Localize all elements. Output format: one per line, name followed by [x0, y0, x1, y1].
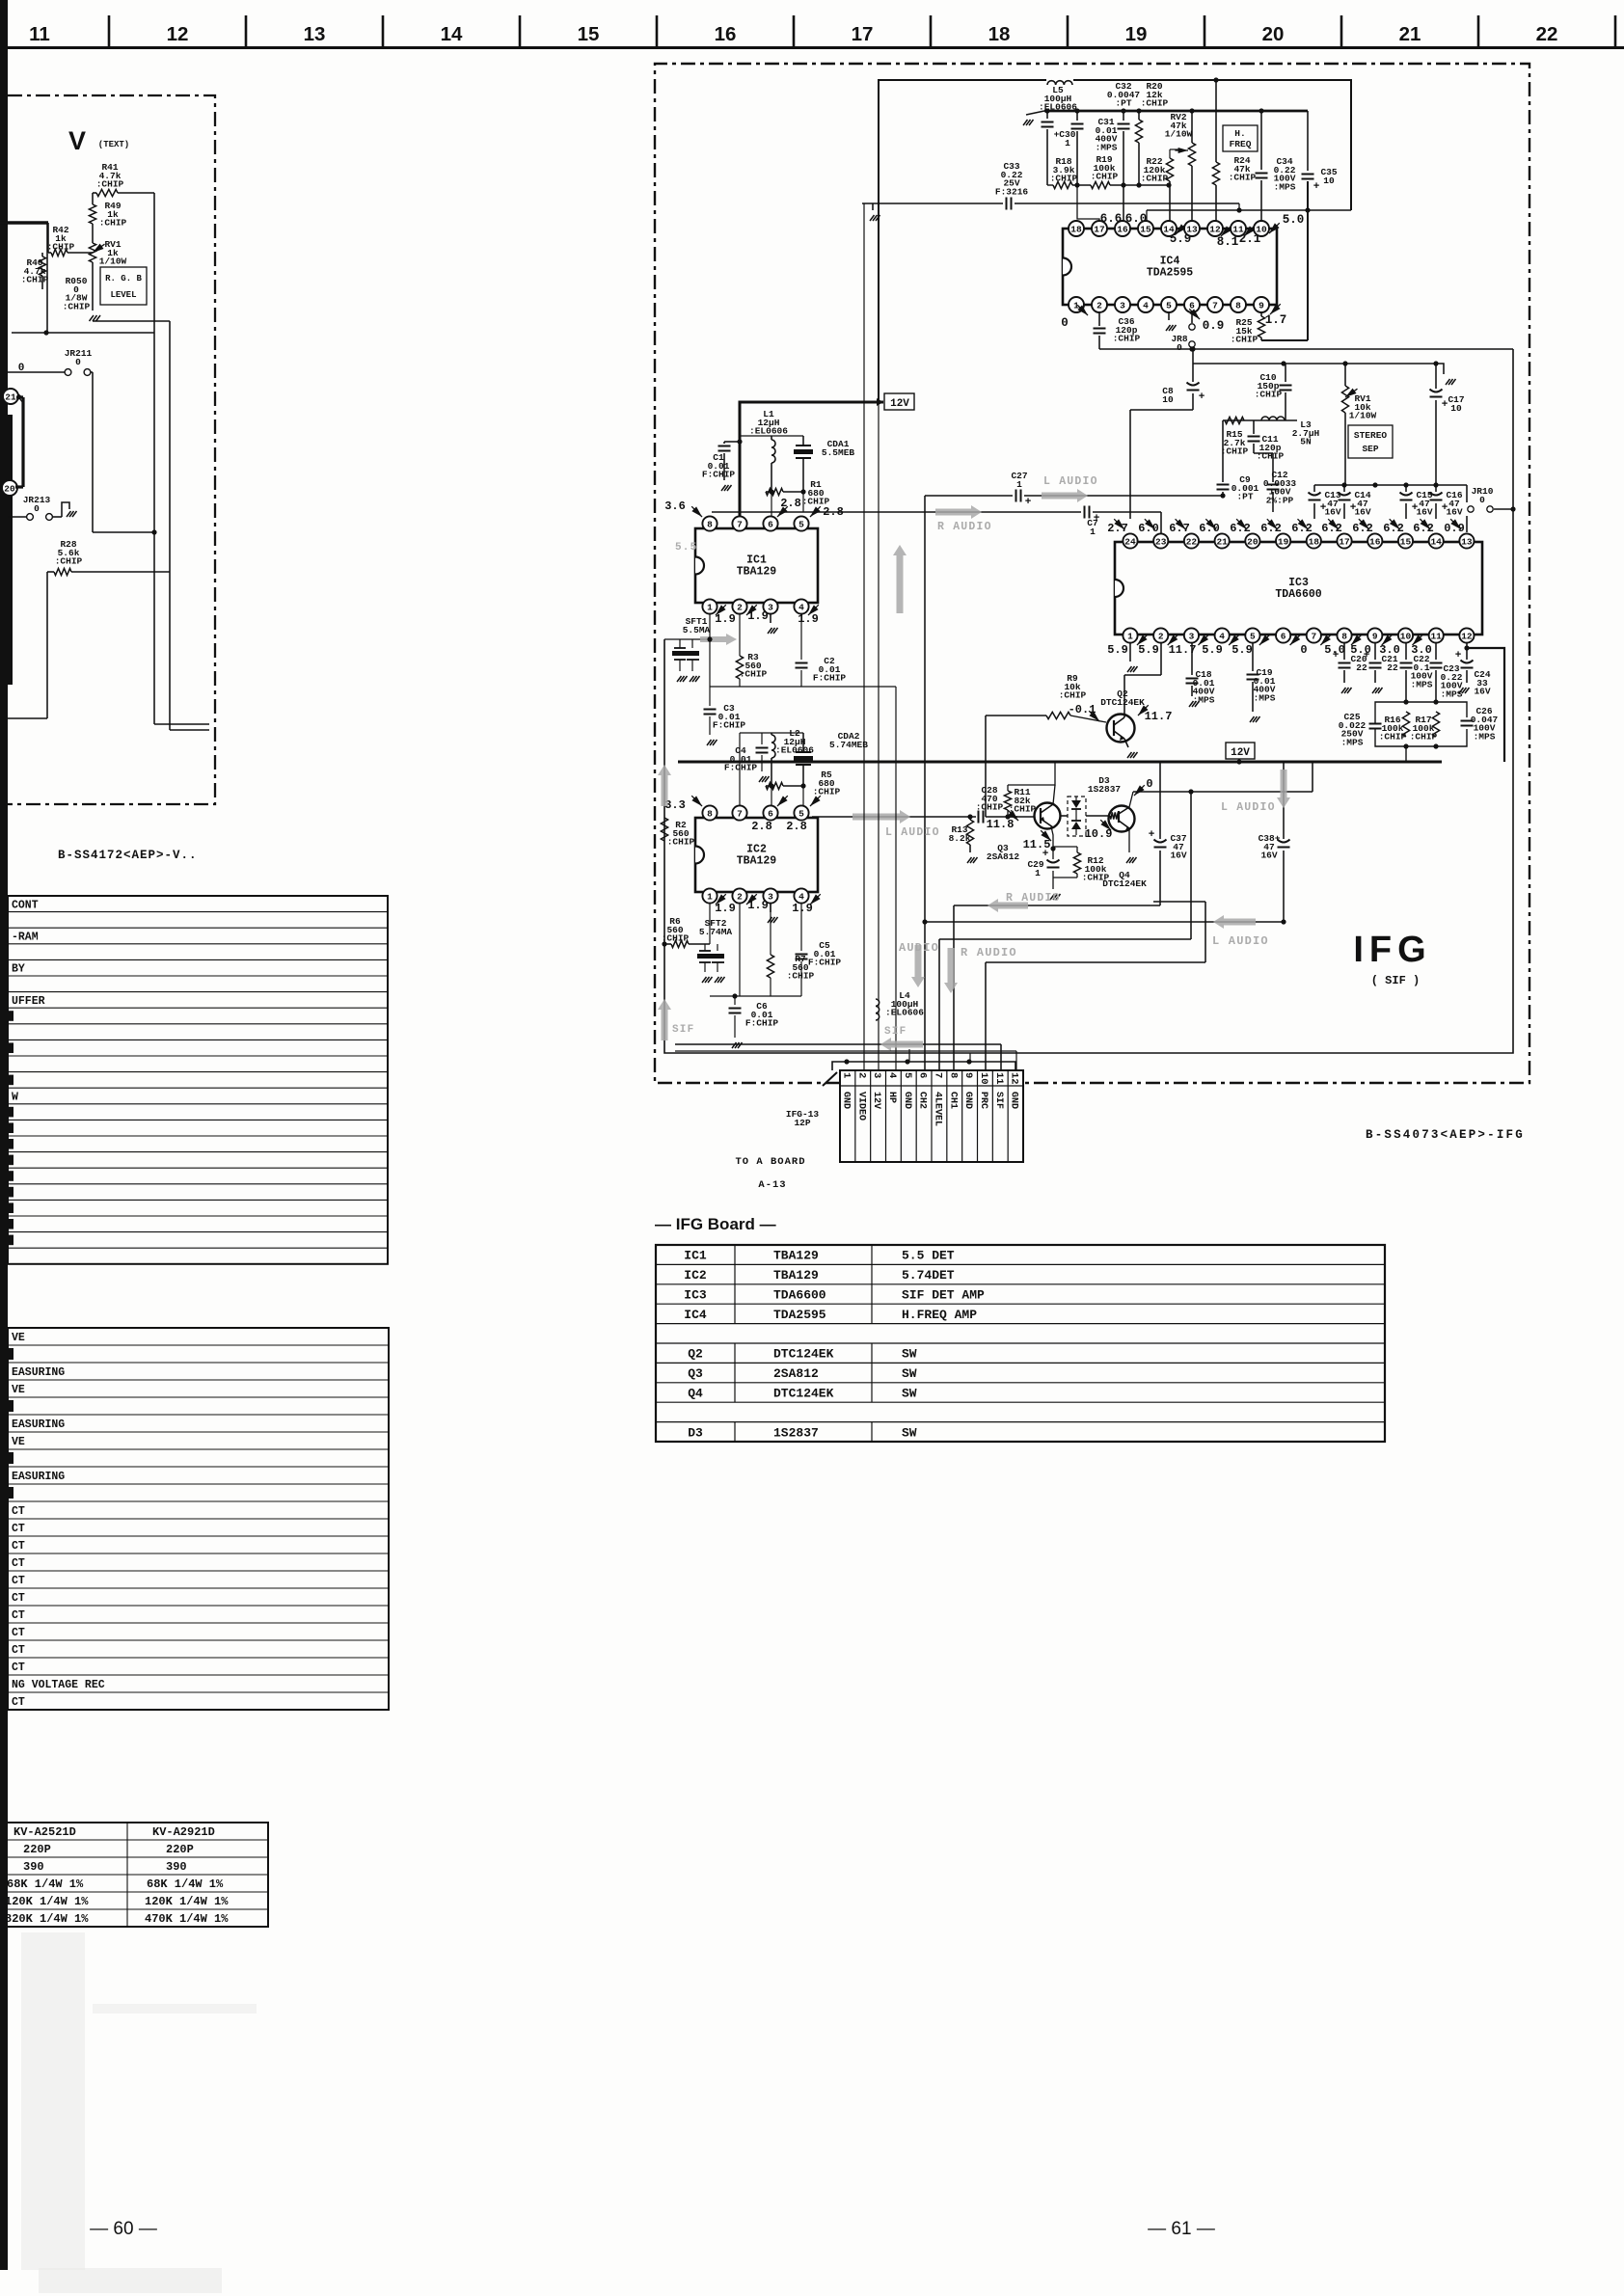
- svg-text:CT: CT: [12, 1540, 25, 1553]
- svg-text:1: 1: [1035, 868, 1041, 878]
- capacitor C19: [1252, 642, 1254, 671]
- inductor L4: [878, 402, 880, 1070]
- svg-text:( SIF ): ( SIF ): [1371, 974, 1420, 987]
- svg-text:10: 10: [1450, 403, 1462, 414]
- svg-text:5.74MA: 5.74MA: [699, 927, 733, 937]
- svg-text:DTC124EK: DTC124EK: [1100, 697, 1145, 708]
- wire stub pin9: [969, 1053, 971, 1062]
- power wire 12V to IC1: [740, 402, 883, 524]
- svg-text:5: 5: [1166, 300, 1172, 311]
- resistor R20: [1138, 111, 1140, 120]
- svg-text:0: 0: [1479, 495, 1485, 505]
- IC1 top pins: [702, 516, 717, 530]
- svg-text:12: 12: [167, 23, 189, 45]
- junction dots gnd pins: [844, 1059, 849, 1064]
- svg-text:A-13: A-13: [758, 1179, 786, 1191]
- resistor R49: [89, 204, 95, 224]
- svg-text:11: 11: [993, 1072, 1005, 1085]
- svg-text:8.1: 8.1: [1217, 235, 1239, 249]
- svg-text:+: +: [1350, 502, 1357, 514]
- svg-text:+: +: [1313, 181, 1320, 193]
- svg-text:220P: 220P: [166, 1843, 194, 1856]
- svg-text:7: 7: [737, 519, 743, 529]
- svg-text:SEP: SEP: [1362, 444, 1378, 454]
- svg-text:TDA2595: TDA2595: [1147, 267, 1193, 280]
- resistor R9: [1046, 712, 1070, 718]
- svg-text:2.8: 2.8: [823, 505, 844, 519]
- wire: [41, 253, 43, 257]
- ground pin1: [1129, 642, 1131, 662]
- resistor R24: [1215, 80, 1217, 162]
- STEREO SEP box: [1348, 425, 1393, 458]
- svg-text:+: +: [1455, 650, 1462, 662]
- svg-text:20: 20: [4, 483, 15, 494]
- capacitor C4: [761, 733, 763, 744]
- svg-text:D3: D3: [688, 1425, 703, 1440]
- svg-text:CH2: CH2: [917, 1092, 928, 1109]
- svg-text:CONT: CONT: [12, 899, 39, 911]
- wire GND12: [675, 1050, 1016, 1052]
- gray arrow down: [1277, 770, 1290, 808]
- wire: [1008, 816, 1034, 818]
- bus above IC3 pins: [1314, 484, 1467, 486]
- svg-text::MPS: :MPS: [1474, 731, 1496, 742]
- svg-text:CT: CT: [12, 1505, 25, 1518]
- capacitor C23: [1435, 642, 1437, 660]
- svg-text:0: 0: [18, 363, 25, 374]
- bus above IC3: [1099, 348, 1513, 350]
- svg-text:F:CHIP: F:CHIP: [808, 958, 842, 968]
- junction: [43, 330, 48, 335]
- wire: [801, 686, 896, 688]
- junction: [1341, 482, 1346, 487]
- junctions: [1044, 108, 1049, 113]
- jumper JR211: [8, 371, 65, 373]
- IC4 top pins: [1069, 221, 1084, 236]
- wire elbow pin17: [1077, 185, 1099, 224]
- wire: [710, 995, 801, 997]
- IC2 top pins: [702, 805, 717, 820]
- svg-text:0: 0: [1300, 643, 1307, 657]
- svg-text:22: 22: [1186, 536, 1198, 547]
- svg-text:F:CHIP: F:CHIP: [724, 763, 758, 773]
- inductor L1: [771, 436, 772, 440]
- svg-text:1: 1: [1127, 631, 1133, 641]
- junction: [1510, 506, 1515, 511]
- table mid-left (cut off): [8, 1328, 389, 1710]
- ground Q4: [1128, 828, 1130, 852]
- svg-text:11: 11: [1430, 631, 1442, 641]
- svg-text:1S2837: 1S2837: [773, 1425, 819, 1440]
- capacitor C25: [1369, 723, 1382, 725]
- wire: [771, 492, 772, 524]
- capacitor C9: [1222, 420, 1224, 482]
- capacitor C14: [1343, 485, 1345, 492]
- svg-text:UFFER: UFFER: [12, 995, 45, 1008]
- capacitor C24: [1466, 642, 1468, 648]
- capacitor C29: [1052, 849, 1054, 859]
- jumper JR8: [1191, 312, 1193, 323]
- svg-text::CHIP: :CHIP: [1410, 732, 1438, 743]
- svg-text:L AUDIO: L AUDIO: [1043, 475, 1098, 488]
- svg-text:12V: 12V: [1231, 747, 1250, 759]
- svg-text::PT: :PT: [1115, 98, 1131, 109]
- svg-text:1: 1: [1090, 527, 1096, 537]
- svg-text:CT: CT: [12, 1644, 25, 1657]
- gray up arrow mid: [893, 545, 907, 613]
- svg-text:5.5 DET: 5.5 DET: [902, 1249, 955, 1263]
- resistor R13: [969, 817, 971, 820]
- svg-text:16V: 16V: [1324, 507, 1340, 518]
- wire: [739, 733, 741, 813]
- amplifier IC2 body: [695, 818, 818, 892]
- svg-text::CHIP: :CHIP: [1141, 174, 1169, 184]
- svg-text:1: 1: [707, 602, 713, 612]
- svg-text::CHIP: :CHIP: [63, 301, 91, 311]
- resistor R3: [739, 613, 741, 656]
- svg-text:— 61 —: — 61 —: [1148, 2219, 1215, 2239]
- svg-text:FREQ: FREQ: [1230, 139, 1252, 149]
- svg-text:390: 390: [23, 1860, 44, 1874]
- wire: [92, 262, 94, 311]
- svg-text:TDA6600: TDA6600: [1275, 588, 1321, 601]
- svg-text:CT: CT: [12, 1609, 25, 1622]
- svg-text:3: 3: [768, 891, 773, 902]
- svg-text:SIF: SIF: [884, 1026, 907, 1038]
- svg-text:1: 1: [1065, 138, 1070, 149]
- svg-text::CHIP: :CHIP: [1229, 173, 1257, 183]
- long wire with capacitor C33: [862, 203, 1003, 204]
- svg-text:19: 19: [1278, 536, 1289, 547]
- resistor R1: [766, 491, 771, 493]
- svg-text:+: +: [1412, 502, 1419, 514]
- svg-text:1: 1: [840, 1072, 852, 1078]
- svg-text:V: V: [68, 126, 86, 155]
- junction: [1189, 346, 1194, 351]
- thick wire pin12 to rail: [1467, 648, 1504, 762]
- svg-text:12: 12: [1209, 224, 1221, 234]
- svg-text:TBA129: TBA129: [773, 1268, 819, 1283]
- wire CH2: [925, 921, 1284, 923]
- svg-text:13: 13: [1186, 224, 1198, 234]
- wire: [1053, 846, 1077, 848]
- capacitor C26: [1461, 720, 1474, 722]
- junction: [769, 489, 773, 494]
- svg-text:5.9: 5.9: [1232, 643, 1253, 657]
- svg-text:R AUDIO: R AUDIO: [937, 521, 992, 533]
- svg-text::MPS: :MPS: [1254, 692, 1276, 703]
- svg-text:F:CHIP: F:CHIP: [702, 470, 736, 480]
- svg-text:1/10W: 1/10W: [99, 257, 127, 267]
- wire CH1: [954, 905, 1160, 906]
- svg-text:L AUDIO: L AUDIO: [885, 826, 940, 839]
- svg-text:F:CHIP: F:CHIP: [745, 1018, 779, 1029]
- ground pin3 IC1: [770, 613, 771, 623]
- svg-text:5: 5: [902, 1072, 913, 1078]
- svg-text:F:CHIP: F:CHIP: [813, 673, 847, 684]
- svg-text:16: 16: [1117, 224, 1128, 234]
- wire Q4 collector: [1129, 792, 1133, 807]
- svg-text:10.9: 10.9: [1085, 827, 1113, 841]
- resistor R2: [661, 818, 667, 841]
- svg-text:4: 4: [1143, 300, 1149, 311]
- thick link to R25: [1261, 339, 1308, 341]
- svg-text:+: +: [1094, 513, 1100, 525]
- resistor R25: [1260, 312, 1262, 316]
- resistor R15: [1225, 417, 1244, 423]
- svg-text:120K 1/4W 1%: 120K 1/4W 1%: [5, 1895, 89, 1908]
- svg-text:7: 7: [737, 808, 743, 819]
- H.FREQ box: [1223, 125, 1258, 151]
- wire: [92, 372, 94, 532]
- svg-text:12: 12: [1009, 1072, 1020, 1085]
- svg-text:+: +: [1320, 502, 1327, 514]
- pot RV2: [1191, 111, 1193, 143]
- svg-text:3: 3: [1189, 631, 1195, 641]
- svg-text:IC3: IC3: [684, 1288, 707, 1303]
- svg-text:1.9: 1.9: [715, 902, 736, 915]
- svg-text::CHIP: :CHIP: [96, 179, 124, 190]
- svg-text:16V: 16V: [1446, 507, 1462, 518]
- svg-text:5.9: 5.9: [1107, 643, 1128, 657]
- svg-text::MPS: :MPS: [1096, 142, 1118, 152]
- svg-text:CH1: CH1: [947, 1092, 958, 1109]
- bus above IC4: [1147, 209, 1351, 211]
- svg-text:9: 9: [1372, 631, 1378, 641]
- resistor R12: [1076, 847, 1078, 852]
- resistor R7: [770, 903, 771, 955]
- L AUDIO wire to Q3: [812, 816, 974, 818]
- wire: [740, 732, 803, 734]
- pot RV1: [1344, 364, 1346, 386]
- wire: [47, 571, 54, 573]
- wire: [93, 320, 170, 322]
- resistor R17: [1432, 712, 1439, 737]
- svg-text:0: 0: [1146, 777, 1152, 791]
- wire thick: [21, 397, 24, 487]
- svg-text:STEREO: STEREO: [1354, 430, 1388, 441]
- gray arrow L AUDIO: [1042, 489, 1088, 502]
- svg-text:22: 22: [1536, 23, 1558, 45]
- capacitor C12: [1272, 453, 1274, 482]
- wire 4LEVEL: [939, 938, 1191, 940]
- svg-text:1S2837: 1S2837: [1088, 784, 1122, 795]
- svg-text:1.9: 1.9: [792, 902, 813, 915]
- svg-text:3: 3: [1120, 300, 1125, 311]
- power bus 12V top: [1044, 110, 1308, 113]
- svg-text:21: 21: [5, 392, 16, 402]
- svg-text:7: 7: [1212, 300, 1218, 311]
- svg-text:5.0: 5.0: [1283, 213, 1305, 227]
- svg-text:EASURING: EASURING: [12, 1471, 65, 1483]
- svg-text:+: +: [1199, 392, 1205, 403]
- svg-text:PRC: PRC: [978, 1092, 988, 1109]
- svg-text:8: 8: [707, 519, 713, 529]
- IC3 top pins: [1123, 533, 1137, 548]
- svg-text:8: 8: [707, 808, 713, 819]
- svg-text::MPS: :MPS: [1441, 689, 1463, 699]
- svg-text:20: 20: [1262, 23, 1285, 45]
- inductor L5: [1046, 74, 1073, 85]
- svg-text:1.9: 1.9: [715, 612, 736, 626]
- svg-text:22: 22: [1356, 662, 1367, 673]
- svg-text:21: 21: [1399, 23, 1421, 45]
- svg-text:5.5: 5.5: [675, 542, 697, 554]
- wire: [46, 223, 48, 333]
- svg-text:HP: HP: [886, 1092, 897, 1103]
- svg-text:7: 7: [1311, 631, 1316, 641]
- svg-text:2%:PP: 2%:PP: [1266, 495, 1294, 505]
- svg-text:5.9: 5.9: [1138, 643, 1159, 657]
- resistor R28: [54, 568, 71, 575]
- wire: [153, 193, 155, 532]
- svg-text:— 60 —: — 60 —: [90, 2219, 157, 2239]
- capacitor C36: [1098, 312, 1100, 326]
- lower RC block frame: [1375, 702, 1467, 723]
- filter SFT2: [704, 944, 706, 951]
- junction: [1188, 789, 1193, 794]
- svg-text:TBA129: TBA129: [737, 855, 777, 868]
- junction: [967, 814, 972, 819]
- svg-text:6: 6: [768, 808, 773, 819]
- wire: [740, 435, 803, 437]
- svg-text:CT: CT: [12, 1661, 25, 1674]
- transistor Q3: [1035, 803, 1061, 829]
- svg-text:68K 1/4W 1%: 68K 1/4W 1%: [7, 1877, 84, 1891]
- svg-text:13: 13: [1461, 536, 1473, 547]
- svg-text:8: 8: [1341, 631, 1347, 641]
- wire: [1070, 716, 1106, 722]
- svg-text:21: 21: [1216, 536, 1228, 547]
- svg-text:R. G. B: R. G. B: [105, 274, 142, 284]
- ground: [1436, 364, 1444, 374]
- svg-text:SIF: SIF: [672, 1024, 694, 1036]
- svg-text:11: 11: [29, 23, 50, 45]
- svg-text::CHIP: :CHIP: [99, 218, 127, 229]
- capacitor C6: [734, 996, 736, 1005]
- svg-text:F:CHIP: F:CHIP: [713, 720, 746, 731]
- svg-text:SW: SW: [902, 1347, 917, 1362]
- ground: [872, 203, 874, 210]
- junction: [922, 919, 927, 924]
- resistor R22: [1169, 149, 1171, 158]
- gray up arrow left rail a: [658, 765, 671, 806]
- gray arrow: [853, 810, 910, 824]
- pin 20: [2, 480, 17, 496]
- svg-text:5.5MA: 5.5MA: [683, 625, 711, 635]
- bottom mini bus with R18 R19: [1047, 184, 1053, 186]
- page border ruler line: [8, 46, 1624, 49]
- junction: [1281, 361, 1286, 365]
- wire stub pin5: [908, 1049, 910, 1062]
- wire pin2 down IC2: [739, 903, 741, 996]
- wire: [1130, 409, 1193, 411]
- junction: [151, 529, 156, 534]
- svg-text::CHIP: :CHIP: [976, 802, 1004, 813]
- capacitor C31: [1076, 111, 1078, 121]
- svg-text:CT: CT: [12, 1523, 25, 1535]
- R AUDIO wire with C7: [712, 511, 1081, 513]
- svg-text:DTC124EK: DTC124EK: [773, 1347, 834, 1362]
- svg-text:0: 0: [34, 503, 40, 514]
- svg-text:4: 4: [798, 602, 804, 612]
- svg-text:16V: 16V: [1474, 687, 1490, 697]
- capacitor C17: [1435, 364, 1437, 389]
- svg-text:1: 1: [1016, 479, 1022, 490]
- svg-text:H.FREQ AMP: H.FREQ AMP: [902, 1308, 977, 1322]
- ground pin3 IC2: [770, 903, 771, 912]
- svg-text::MPS: :MPS: [1341, 737, 1364, 747]
- svg-text:DTC124EK: DTC124EK: [773, 1387, 834, 1401]
- svg-text:16V: 16V: [1260, 851, 1277, 861]
- svg-text:14: 14: [441, 23, 463, 45]
- svg-text:EASURING: EASURING: [12, 1418, 65, 1431]
- svg-text:68K 1/4W 1%: 68K 1/4W 1%: [147, 1877, 224, 1891]
- svg-text:12V: 12V: [890, 398, 909, 410]
- svg-text:10: 10: [1323, 176, 1335, 186]
- power rail 12V: [678, 761, 1442, 764]
- capacitor C1: [724, 441, 740, 443]
- svg-text:15: 15: [1400, 536, 1412, 547]
- svg-text:TO A BOARD: TO A BOARD: [735, 1156, 805, 1168]
- svg-text:CT: CT: [12, 1627, 25, 1639]
- scan edge black bar: [0, 0, 8, 2270]
- ground: [1124, 739, 1128, 747]
- junction: [1213, 77, 1218, 82]
- wire: [986, 715, 1046, 716]
- transistor Q4: [1109, 806, 1135, 832]
- svg-text:+: +: [1025, 497, 1032, 508]
- svg-text::CHIP: :CHIP: [1231, 335, 1259, 345]
- svg-text:GND: GND: [840, 1092, 851, 1109]
- svg-text:6: 6: [768, 519, 773, 529]
- svg-text:11.7: 11.7: [1145, 710, 1173, 723]
- svg-text:18: 18: [1070, 224, 1082, 234]
- capacitor C30: [1046, 111, 1048, 119]
- svg-text:0: 0: [1061, 316, 1069, 330]
- svg-text:2.8: 2.8: [786, 820, 807, 833]
- svg-text:GND: GND: [1009, 1092, 1019, 1109]
- svg-text:TBA129: TBA129: [773, 1249, 819, 1263]
- svg-text:6: 6: [917, 1072, 929, 1078]
- svg-text:SIF DET AMP: SIF DET AMP: [902, 1288, 985, 1303]
- gray arrow: [880, 1038, 923, 1051]
- svg-text:+: +: [1149, 829, 1155, 841]
- wire PRC: [986, 961, 1205, 963]
- filter SFT1: [679, 639, 681, 648]
- svg-text:390: 390: [166, 1860, 187, 1874]
- svg-text:W: W: [12, 1092, 18, 1104]
- svg-text:SIF: SIF: [993, 1092, 1004, 1109]
- svg-text:2: 2: [1158, 631, 1164, 641]
- svg-text:15: 15: [1140, 224, 1151, 234]
- svg-text:B-SS4172<AEP>-V..: B-SS4172<AEP>-V..: [58, 849, 198, 862]
- svg-text:5.74MEB: 5.74MEB: [829, 740, 868, 750]
- svg-text:IC4: IC4: [684, 1308, 707, 1322]
- wire elbow pin11: [1238, 203, 1240, 210]
- svg-text:TDA2595: TDA2595: [773, 1308, 826, 1322]
- svg-text:16V: 16V: [1170, 851, 1186, 861]
- svg-text:4LEVEL: 4LEVEL: [932, 1092, 942, 1126]
- IC IC4 body: [1063, 229, 1277, 305]
- svg-text::CHIP: :CHIP: [740, 669, 768, 680]
- wire: [93, 192, 96, 194]
- svg-text:16V: 16V: [1354, 507, 1370, 518]
- capacitor C35: [1307, 111, 1309, 171]
- IFG board dash-dot border: [655, 64, 1529, 1083]
- pot RV1: [89, 243, 95, 262]
- svg-text:+: +: [1364, 650, 1370, 662]
